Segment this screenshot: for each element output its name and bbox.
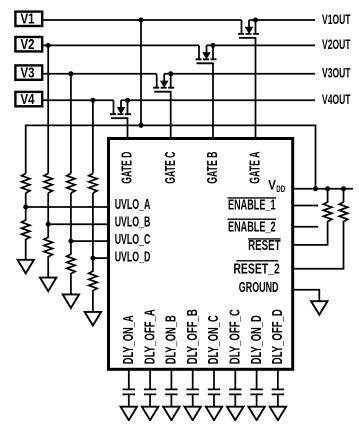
svg-text:DLY_OFF_D: DLY_OFF_D (270, 309, 286, 364)
svg-text:V3: V3 (21, 64, 35, 81)
capacitor C5 (208, 389, 220, 394)
wire Q4 gate to GATE D pin (127, 118, 129, 138)
wire V3 output to V3OUT (171, 73, 315, 75)
wire C1 to ground (128, 395, 130, 407)
op-amp U1 chip body (109, 139, 293, 370)
svg-text:V: V (268, 176, 276, 192)
wire column 2 mid (47, 193, 49, 224)
resistor R6 (VDD to RESET_2) (292, 189, 348, 269)
wire V2 output to V2OUT (213, 44, 315, 46)
pin DLY_ON_D wire (256, 369, 258, 389)
wire C5 to ground (213, 395, 215, 407)
ground column 1 (18, 260, 34, 274)
node Q2 source junction (211, 43, 216, 48)
wire column 1 mid (25, 193, 27, 207)
wire VDD pin stub (292, 188, 354, 190)
wire V1 output to V1OUT (256, 19, 316, 21)
wire V3 tap down (70, 74, 72, 174)
resistor divider column 3 top resistor (67, 174, 75, 194)
ground C7 (248, 407, 264, 421)
node VDD stub junction 2 (325, 186, 330, 191)
wire VDD net (top horizontal to right side) (26, 125, 316, 188)
ground column 3 (63, 294, 79, 308)
transistor Q3 (V3 MOSFET) (153, 74, 174, 92)
node V1 tap junction (139, 18, 144, 23)
svg-text:DD: DD (276, 184, 285, 194)
svg-text:V3OUT: V3OUT (322, 65, 351, 81)
wire C7 to ground (256, 395, 258, 407)
svg-text:DLY_OFF_A: DLY_OFF_A (142, 309, 158, 364)
wire ENABLE_1 pin stub (292, 205, 319, 207)
svg-text:GATE B: GATE B (205, 152, 221, 184)
transistor Q2 (V2 MOSFET) (196, 45, 217, 63)
node VDD net junction (139, 123, 144, 128)
wire V1 rail (43, 19, 241, 21)
svg-text:GATE D: GATE D (120, 152, 136, 184)
resistor divider column 1 bottom resistor (22, 207, 30, 260)
ground column 4 (85, 312, 101, 326)
wire UVLO_D to chip (93, 257, 109, 259)
resistor divider column 3 bottom resistor (67, 241, 75, 294)
wire C3 to ground (170, 395, 172, 407)
svg-text:UVLO_D: UVLO_D (115, 249, 151, 265)
node Q1 source junction (253, 18, 258, 23)
input box V4 (15, 91, 42, 108)
node V4 tap junction (90, 98, 95, 103)
wire V4 output to V4OUT (128, 99, 316, 101)
wire Q3 gate to GATE C pin (170, 92, 172, 139)
pin DLY_OFF_B wire (192, 369, 194, 389)
svg-text:RESET: RESET (248, 238, 281, 254)
ground C6 (227, 407, 243, 421)
node Q3 source junction (168, 71, 173, 76)
ground right (311, 301, 327, 315)
input box V1 (15, 11, 42, 28)
transistor Q1 (V1 MOSFET) (238, 20, 259, 38)
svg-text:ENABLE_1: ENABLE_1 (228, 197, 276, 213)
svg-text:GATE A: GATE A (248, 151, 264, 183)
node UVLO_B tap (46, 222, 51, 227)
node UVLO_C tap (68, 239, 73, 244)
wire UVLO_C to chip (71, 240, 109, 242)
resistor divider column 4 bottom resistor (89, 258, 97, 312)
capacitor C1 (123, 389, 135, 394)
wire Q2 gate to GATE B pin (212, 63, 214, 138)
svg-text:DLY_ON_C: DLY_ON_C (206, 315, 222, 364)
pin DLY_ON_B wire (170, 369, 172, 389)
node VDD stub junction 1 (313, 186, 318, 191)
svg-text:DLY_ON_D: DLY_ON_D (249, 315, 265, 364)
svg-text:DLY_OFF_B: DLY_OFF_B (185, 309, 201, 364)
svg-text:DLY_OFF_C: DLY_OFF_C (228, 309, 244, 364)
wire GROUND pin stub (292, 290, 320, 302)
capacitor C8 (272, 389, 284, 394)
wire C4 to ground (192, 395, 194, 407)
ground C1 (121, 407, 137, 421)
svg-text:DLY_ON_B: DLY_ON_B (164, 315, 180, 364)
wire V3 rail (43, 73, 156, 75)
capacitor C2 (144, 389, 156, 394)
svg-text:UVLO_B: UVLO_B (115, 215, 151, 231)
wire C8 to ground (277, 395, 279, 407)
wire column 3 mid (70, 193, 72, 241)
svg-text:V4: V4 (21, 91, 35, 108)
svg-text:GATE C: GATE C (163, 151, 179, 183)
ground column 2 (40, 278, 56, 292)
wire column 4 mid (92, 193, 94, 258)
svg-text:ENABLE_2: ENABLE_2 (228, 220, 276, 236)
svg-text:V1OUT: V1OUT (322, 11, 351, 27)
svg-text:UVLO_A: UVLO_A (115, 197, 151, 213)
wire ENABLE_2 pin stub (292, 226, 319, 228)
node V3 tap junction (68, 71, 73, 76)
input box V2 (15, 36, 42, 53)
resistor divider column 1 top resistor (22, 174, 30, 194)
pin DLY_OFF_D wire (277, 369, 279, 389)
wire V2 rail (43, 44, 199, 46)
node Q4 source junction (125, 98, 130, 103)
ground C3 (163, 407, 179, 421)
ground C5 (206, 407, 222, 421)
ground C2 (142, 407, 158, 421)
node UVLO_D tap (90, 256, 95, 261)
capacitor C3 (165, 389, 177, 394)
pin DLY_ON_C wire (213, 369, 215, 389)
transistor Q4 (V4 MOSFET) (110, 100, 131, 118)
wire V2 tap down (47, 45, 49, 173)
wire V4 tap down (92, 100, 94, 173)
ground C4 (185, 407, 201, 421)
wire V1 tap down (140, 20, 142, 125)
svg-text:GROUND: GROUND (239, 280, 279, 296)
svg-text:V2: V2 (21, 36, 35, 53)
node UVLO_A tap (23, 205, 28, 210)
ground C8 (270, 407, 286, 421)
resistor divider column 2 top resistor (44, 174, 52, 194)
pin DLY_OFF_A wire (149, 369, 151, 389)
resistor R5 (VDD to RESET) (292, 189, 332, 245)
node V2 tap junction (46, 43, 51, 48)
pin DLY_OFF_C wire (234, 369, 236, 389)
wire Q1 gate to GATE A pin (255, 38, 257, 139)
wire UVLO_B to chip (48, 223, 109, 225)
resistor divider column 2 bottom resistor (44, 224, 52, 277)
svg-text:RESET_2: RESET_2 (233, 261, 279, 277)
wire C2 to ground (149, 395, 151, 407)
wire V4 rail (43, 99, 113, 101)
pin DLY_ON_A wire (128, 369, 130, 389)
capacitor C4 (187, 389, 199, 394)
capacitor C6 (229, 389, 241, 394)
wire C6 to ground (234, 395, 236, 407)
wire UVLO_A to chip (26, 206, 109, 208)
svg-text:DLY_ON_A: DLY_ON_A (121, 315, 137, 364)
svg-text:V2OUT: V2OUT (322, 36, 351, 52)
resistor divider column 4 top resistor (89, 174, 97, 194)
input box V3 (15, 64, 42, 81)
svg-text:UVLO_C: UVLO_C (115, 232, 151, 248)
node VDD stub junction 3 (341, 186, 346, 191)
capacitor C7 (250, 389, 262, 394)
svg-text:V1: V1 (21, 11, 35, 28)
svg-text:V4OUT: V4OUT (322, 91, 351, 107)
